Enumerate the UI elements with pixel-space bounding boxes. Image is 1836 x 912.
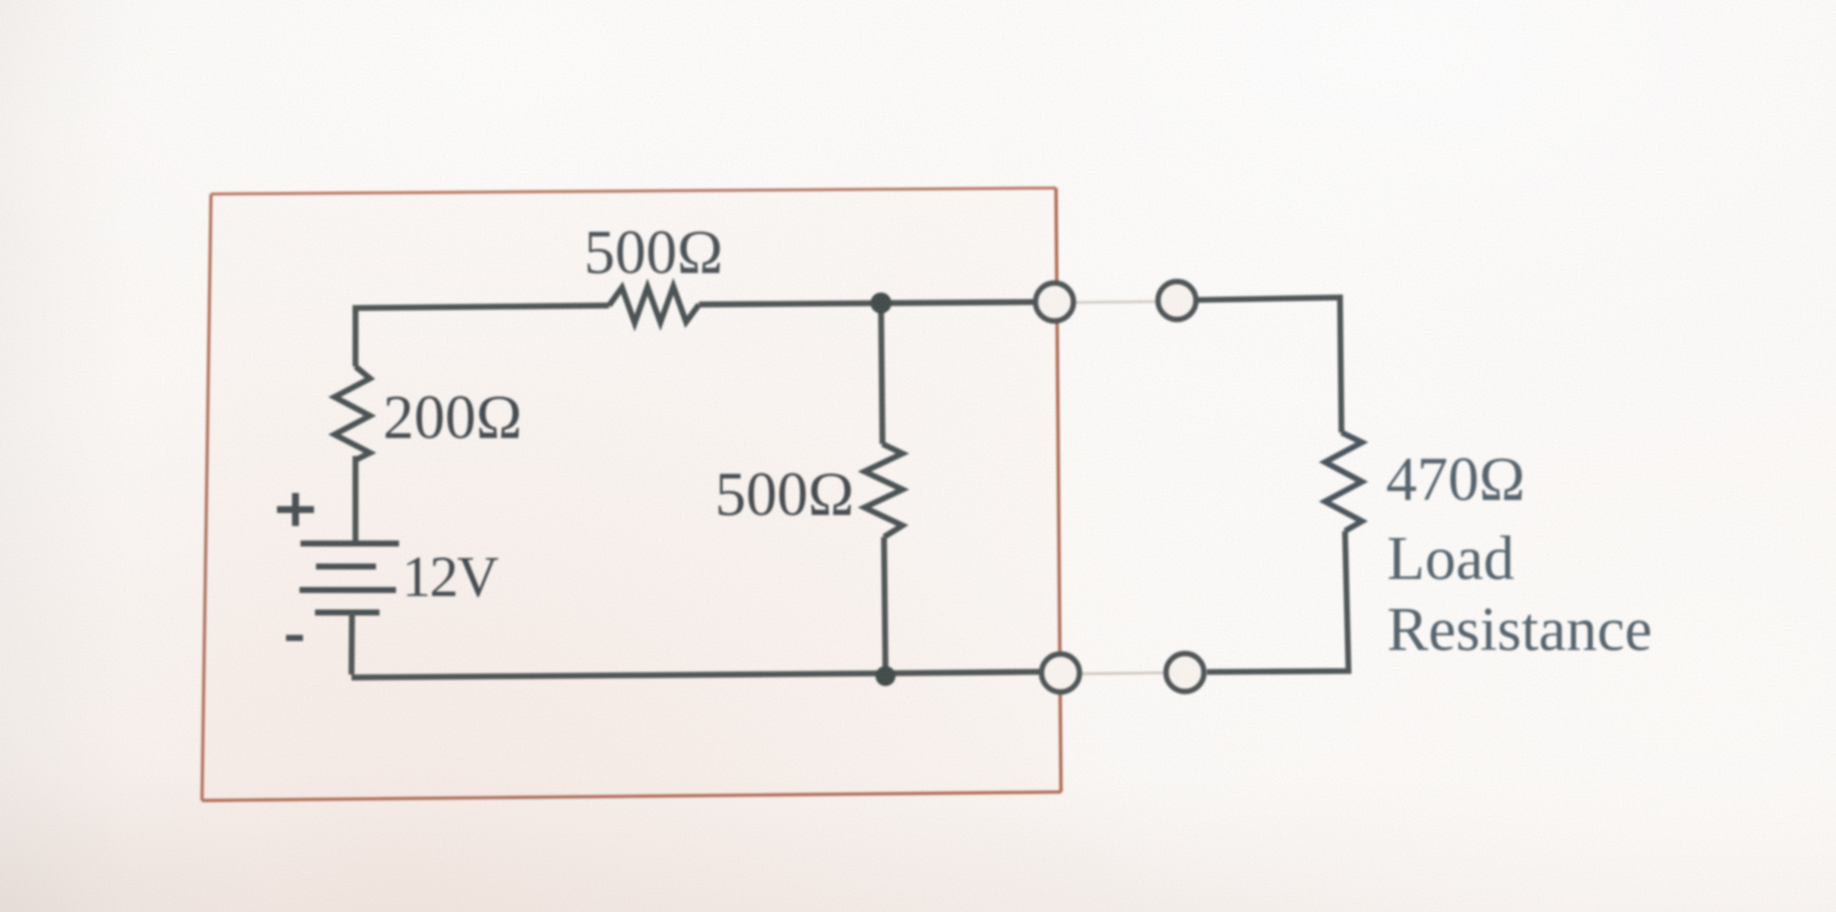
resistor R3 500 ohm middle vertical zigzag	[865, 444, 903, 537]
wire right loop bottom	[1207, 531, 1349, 672]
wire battery negative down to bottom rail	[349, 613, 355, 675]
wire faint link bottom terminals	[1076, 673, 1168, 674]
wire top-left loop	[353, 456, 359, 542]
wire right loop top	[1196, 298, 1342, 433]
source circuit boundary box fill	[202, 188, 1061, 801]
wire top right of R1 to terminal	[699, 302, 1036, 305]
resistor R2 200 ohm left vertical zigzag	[335, 367, 371, 461]
node junction dot bottom	[876, 666, 896, 686]
resistor R4 470 ohm load vertical zigzag	[1325, 433, 1362, 532]
terminal T3 bottom left circle	[1042, 654, 1080, 692]
wire left vertical upper	[356, 306, 610, 367]
battery plate short 4	[315, 610, 380, 616]
boundary box top edge	[211, 188, 1056, 194]
battery plate long 3	[300, 587, 397, 593]
wire middle branch vertical upper	[881, 303, 883, 444]
resistor R1 500 ohm top horizontal zigzag	[609, 287, 699, 324]
terminal T1 top left circle	[1036, 283, 1074, 321]
boundary box bottom edge	[202, 792, 1061, 801]
wire bottom rail	[352, 672, 1043, 678]
battery plus sign	[277, 493, 314, 526]
battery minus sign	[286, 635, 303, 641]
wire middle branch vertical lower	[884, 537, 886, 674]
terminal T4 bottom right circle	[1166, 654, 1204, 692]
boundary box right edge	[1056, 188, 1061, 792]
node junction dot top	[871, 293, 892, 314]
wire faint link top terminals	[1072, 302, 1160, 303]
boundary box left edge	[202, 194, 211, 801]
battery B1 12V plate long top	[301, 541, 400, 547]
battery plate short 2	[316, 564, 376, 570]
terminal T2 top right circle	[1158, 282, 1196, 320]
